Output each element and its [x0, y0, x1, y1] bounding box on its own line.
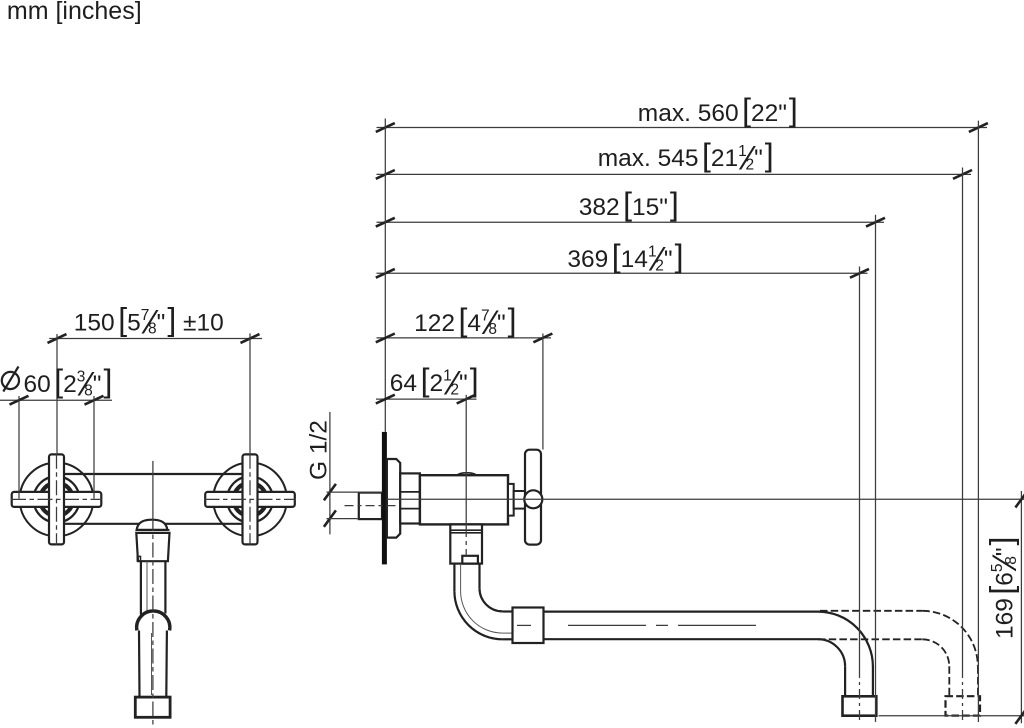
- dimension line max. 545: [377, 173, 972, 175]
- side view: bend outer arc: [454, 591, 502, 639]
- side view: coupling nut: [513, 608, 544, 644]
- front view: swivel ball joint: [137, 611, 170, 630]
- front view: spout base dome: [137, 520, 168, 530]
- side view: handle hub ball: [524, 490, 542, 508]
- extension line left handle axis: [56, 334, 58, 454]
- dashed swivel position: outer arc: [922, 611, 978, 667]
- extension line max.545 / dashed spout axis: [962, 168, 964, 669]
- side view: spout holder: [450, 524, 482, 563]
- dashed swivel position: drop edges: [948, 666, 950, 696]
- main horizontal centre line (valve axis): [387, 498, 1024, 500]
- front view: valve block notch: [137, 556, 140, 561]
- front view: spout valve block: [136, 533, 169, 561]
- front view: faucet body edges: [64, 473, 241, 475]
- extension line rosette left edge: [18, 396, 20, 499]
- side view: down tube to spout: [453, 564, 455, 592]
- side view: cartridge cap bump: [457, 473, 477, 476]
- side view: spout bend outer: [818, 612, 873, 667]
- diameter symbol: [2, 372, 19, 389]
- front view: right cross handle bars: [205, 492, 295, 507]
- dashed swivel position: inner arc: [922, 639, 949, 666]
- front view: right rosette outer circle: [213, 463, 287, 537]
- svg-text:mm [inches]: mm [inches]: [7, 0, 142, 25]
- dimension line 369: [377, 272, 868, 274]
- side view: spout drop edges: [844, 666, 846, 696]
- dashed swivel position: bottom edge: [818, 638, 922, 640]
- extension line wall plane: [384, 119, 386, 432]
- front view: left handle skirt circle: [34, 476, 80, 522]
- side view: tube stubs to coupling: [503, 610, 513, 612]
- side view: valve body: [420, 475, 508, 524]
- front view: aerator outlet: [135, 697, 170, 717]
- extension line 369 / spout axis: [859, 267, 861, 669]
- side view: bonnet: [508, 484, 514, 516]
- dimension line 64: [376, 398, 477, 400]
- front view: left rosette outer circle: [20, 463, 94, 537]
- side view: handle stem: [514, 491, 525, 509]
- front view: right handle skirt circle: [227, 476, 273, 522]
- front view: right handle centre lines: [205, 498, 296, 500]
- front view: spout centre line: [152, 461, 154, 516]
- side view: wall plate: [382, 432, 387, 565]
- dashed swivel position: top edge: [820, 610, 922, 612]
- extension line spout outlet bottom: [879, 715, 1024, 717]
- dimension line dia60: [0, 399, 112, 401]
- extension line rosette right edge: [93, 396, 95, 499]
- dimension line max. 560: [377, 127, 988, 129]
- side view: holder nut: [462, 556, 478, 564]
- front view: upper spout tube: [140, 561, 142, 614]
- extension line spout axis / side view: [465, 395, 467, 527]
- dimension line 122: [377, 337, 552, 339]
- front view: left cross handle bars: [12, 492, 102, 507]
- extension line handle outer point: [542, 334, 544, 450]
- side view: rosette: [387, 459, 400, 538]
- front view: spout flange double line: [136, 529, 169, 531]
- front view: tube highlight line: [146, 561, 148, 612]
- extension line 382 / spout outer edge: [875, 215, 877, 722]
- side view: nipple centre line: [345, 505, 399, 507]
- extension line nipple top: [327, 491, 382, 493]
- dimension line 169: [1020, 491, 1022, 723]
- dimension line G1/2: [329, 412, 331, 535]
- side view: aerator outlet: [843, 696, 877, 715]
- side view: spout axis centre line: [517, 624, 531, 626]
- extension line right handle axis: [249, 333, 251, 453]
- side view: spout bend inner: [818, 639, 845, 666]
- side view: bend inner arc: [479, 588, 502, 611]
- side view: cross handle bar: [525, 450, 541, 545]
- svg-text:G 1/2: G 1/2: [306, 420, 333, 480]
- side view: hex adapter: [400, 473, 420, 523]
- side view: bottom bump: [449, 524, 484, 525]
- front view: left handle centre lines: [11, 498, 102, 500]
- extension line max.560 / dashed spout outer edge: [977, 121, 979, 722]
- dimension line 382: [377, 221, 885, 223]
- side view: horizontal spout tube: [544, 610, 819, 612]
- side view: supply nipple G1/2: [359, 493, 382, 519]
- front view: right handle hub ring: [234, 483, 267, 516]
- dimension line 150: [49, 338, 262, 340]
- front view: lower spout tube: [138, 631, 141, 697]
- front view: lower tube highlight: [151, 633, 153, 695]
- front view: left handle hub ring: [40, 483, 73, 516]
- extension line nipple bottom: [327, 518, 359, 520]
- dashed swivel position: aerator: [946, 696, 981, 715]
- side view: bend highlight: [460, 565, 462, 591]
